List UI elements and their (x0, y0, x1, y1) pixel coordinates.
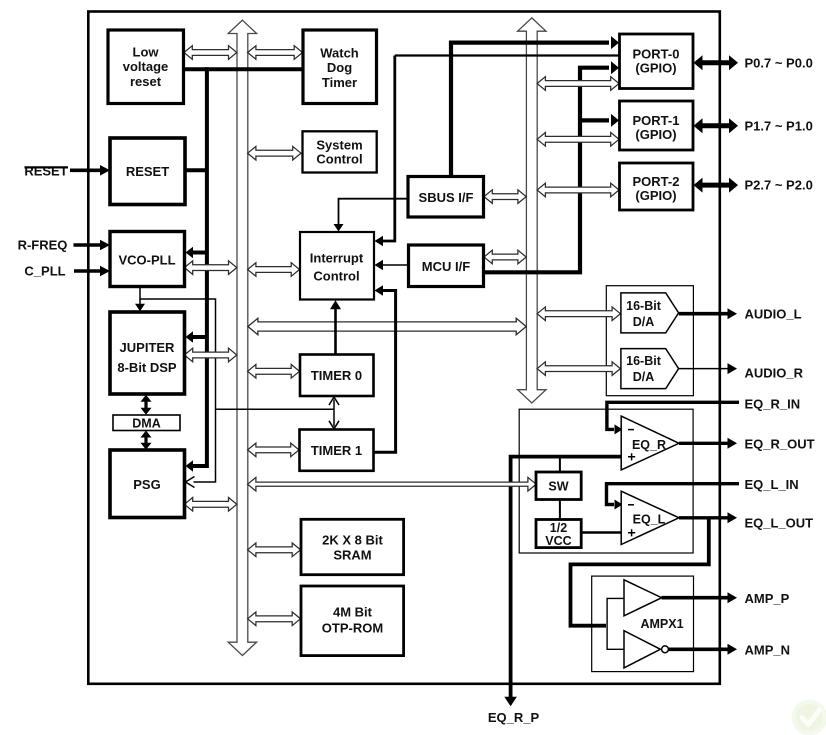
wire EQ_L output (679, 512, 737, 523)
block TIMER 1 (300, 430, 374, 471)
wire DMA-PSG link (141, 431, 152, 450)
DAC 16-Bit D/A left channel (621, 293, 679, 333)
block VCO-PLL (110, 232, 185, 287)
block 2K X 8 Bit SRAM (301, 519, 404, 574)
svg-text:SW: SW (548, 480, 568, 494)
outer chip boundary (88, 12, 720, 684)
wire TIMER0-TIMER1 link (329, 397, 339, 429)
svg-text:SBUS I/F: SBUS I/F (419, 190, 474, 205)
arrow bus1 to watchdog (248, 46, 303, 60)
svg-text:R-FREQ: R-FREQ (18, 238, 68, 253)
wire watchdog net vertical to Interrupt (375, 56, 395, 247)
arrow bus2 to PORT-2 (537, 183, 619, 197)
wire MCU to Interrupt Control (375, 260, 409, 270)
amp AMPX1 positive triangle (624, 580, 662, 616)
svg-text:AMPX1: AMPX1 (640, 617, 683, 631)
arrow VCO-PLL to bus1 (184, 261, 236, 275)
wire clock branch to timer link (216, 408, 335, 410)
arrow bus2 to DAC left (537, 307, 620, 321)
block PORT-0 GPIO (620, 34, 694, 89)
wire PORT-0 external pins (694, 55, 739, 70)
block RESET (110, 138, 185, 205)
EQ_L plus input mark (628, 529, 635, 536)
arrow bus1 to TIMER1 (248, 443, 299, 457)
svg-text:P2.7 ~ P2.0: P2.7 ~ P2.0 (745, 178, 813, 193)
wire C_PLL input (74, 266, 110, 277)
arrow JUPITER to bus1 (184, 348, 236, 362)
amp AMPX1 negative triangle (624, 631, 660, 668)
svg-text:EQ_R_IN: EQ_R_IN (745, 396, 801, 411)
wire RESET input (70, 165, 110, 176)
wire watchdog net horizontal to PORT-0 (395, 54, 620, 56)
block Watch Dog Timer (303, 30, 377, 104)
wire AMPX1 input bracket (607, 598, 623, 649)
AMPX1 inverting bubble (662, 646, 669, 653)
svg-text:AUDIO_R: AUDIO_R (745, 366, 804, 381)
AMPX1 container box (592, 576, 694, 672)
arrow bus2 to PORT-1 (537, 133, 619, 147)
arrow bus1 to TIMER0 (248, 365, 300, 379)
arrow bus1 to interrupt control (248, 263, 300, 277)
svg-text:PORT-2(GPIO): PORT-2(GPIO) (633, 174, 680, 203)
svg-text:PSG: PSG (133, 477, 160, 492)
wire JUPITER-DMA link (141, 395, 152, 415)
wire MCU to PORT-0 (484, 61, 620, 272)
wire SW to half-VCC (559, 500, 561, 520)
svg-text:TIMER 0: TIMER 0 (311, 368, 362, 383)
wire tap into JUPITER DSP (186, 331, 207, 343)
RESET active-low bar (25, 166, 69, 168)
block TIMER 0 (300, 355, 374, 397)
EQ_R plus input mark (628, 453, 635, 460)
arrow bus1 to SRAM (248, 543, 301, 557)
svg-text:C_PLL: C_PLL (24, 264, 65, 279)
wire EQ_R output (679, 438, 737, 449)
svg-text:DMA: DMA (132, 417, 160, 431)
svg-text:EQ_R_P: EQ_R_P (488, 710, 540, 725)
wire SBUS up to PORT-0 (451, 36, 619, 176)
wire low-voltage-reset to watchdog (184, 67, 304, 71)
EQ_L minus input mark (628, 504, 634, 506)
wide bus-to-bus arrow (248, 318, 526, 335)
svg-text:PORT-1(GPIO): PORT-1(GPIO) (633, 113, 680, 142)
svg-text:RESET: RESET (126, 164, 169, 179)
arrow bus1 to OTP-ROM (248, 612, 301, 626)
svg-text:AMP_N: AMP_N (745, 643, 791, 658)
wire VCO-PLL down into JUPITER (135, 299, 145, 311)
arrow PSG to bus1 (184, 498, 236, 512)
wire EQ_L to AMPX1 input (571, 518, 709, 626)
block 1/2 VCC (536, 520, 581, 548)
svg-text:EQ_L_IN: EQ_L_IN (745, 477, 799, 492)
op-amp EQ_R (621, 416, 679, 470)
wire AMP_P output (662, 592, 738, 603)
svg-text:AMP_P: AMP_P (745, 591, 790, 606)
block PORT-2 GPIO (620, 163, 694, 210)
svg-text:EQ_R_OUT: EQ_R_OUT (745, 437, 815, 452)
arrow bus2 to PORT-0 (537, 77, 619, 91)
wire AUDIO_L output (679, 308, 737, 319)
arrow SBUS to bus2 (484, 190, 526, 204)
block SW (536, 472, 581, 500)
svg-text:P1.7 ~ P1.0: P1.7 ~ P1.0 (745, 119, 813, 134)
watermark check circle (792, 700, 826, 735)
block Interrupt Control (300, 232, 374, 300)
svg-text:RESET: RESET (24, 163, 67, 178)
arrow bus1 to SW (248, 477, 537, 491)
wire AUDIO_R output (679, 363, 737, 374)
wire AMP_N output (669, 644, 738, 655)
EQ container box (519, 409, 693, 553)
wire TIMER1 to Interrupt Control (374, 285, 396, 452)
vertical bus 2 (right peripheral bus) (518, 18, 546, 403)
block MCU I/F (409, 245, 484, 287)
DAC 16-Bit D/A right channel (621, 349, 679, 389)
arrow MCU to bus2 (484, 250, 526, 264)
svg-text:EQ_L_OUT: EQ_L_OUT (745, 515, 814, 530)
wire PORT-2 external pins (694, 178, 739, 193)
svg-text:MCU I/F: MCU I/F (422, 259, 470, 274)
wire half-VCC to EQ_L plus (582, 531, 621, 534)
arrow low-voltage-reset to bus1 (184, 46, 237, 60)
arrow bus1 to system control (248, 146, 301, 160)
wire reset distribution vertical (186, 67, 207, 472)
svg-text:AUDIO_L: AUDIO_L (745, 307, 802, 322)
wire TIMER0 to Interrupt Control (330, 300, 341, 354)
vertical bus 1 (left system bus) (228, 20, 256, 655)
arrow bus2 to DAC right (537, 362, 620, 376)
svg-text:PORT-0(GPIO): PORT-0(GPIO) (633, 47, 680, 76)
wire RESET box to vertical (185, 168, 207, 172)
wire tap into VCO-PLL (186, 247, 207, 259)
D/A container box (606, 286, 693, 396)
wire EQ_R plus / EQ_R_P (504, 457, 620, 707)
svg-text:EQ_L: EQ_L (633, 513, 666, 527)
op-amp EQ_L (621, 491, 679, 544)
block PSG (110, 450, 185, 518)
svg-text:VCO-PLL: VCO-PLL (118, 252, 175, 267)
wire R-FREQ input (74, 240, 111, 251)
svg-text:SystemControl: SystemControl (316, 137, 362, 166)
block System Control (303, 131, 377, 172)
block 4M Bit OTP-ROM (301, 586, 404, 656)
wire SW to plus rail (559, 457, 561, 472)
block SBUS I/F (408, 177, 484, 218)
svg-text:P0.7 ~ P0.0: P0.7 ~ P0.0 (745, 55, 813, 70)
wire branch to PORT-1 (580, 114, 619, 127)
wire EQ_L_IN input (607, 484, 740, 510)
wire PORT-1 external pins (694, 118, 739, 133)
block Low voltage reset (108, 30, 184, 104)
wire EQ_R_IN input (607, 402, 739, 434)
wire VCO-PLL clock route (140, 287, 216, 488)
block JUPITER 8-Bit DSP (110, 312, 185, 394)
wire SBUS to Interrupt Control (334, 199, 409, 232)
block DMA (113, 415, 180, 431)
block PORT-1 GPIO (620, 101, 694, 150)
svg-text:EQ_R: EQ_R (632, 438, 666, 452)
svg-text:TIMER 1: TIMER 1 (311, 443, 362, 458)
EQ_R minus input mark (628, 429, 634, 431)
